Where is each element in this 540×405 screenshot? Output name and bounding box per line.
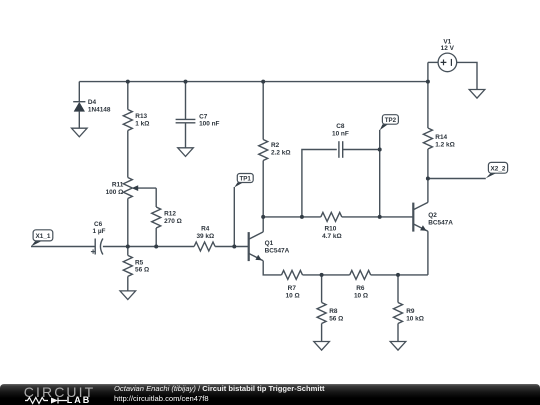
svg-text:10 Ω: 10 Ω <box>286 292 300 299</box>
wire: R5 top lead <box>127 247 129 256</box>
resistor R2 2.2 kΩ <box>259 140 291 161</box>
transistor Q2 BC547A <box>413 202 453 231</box>
svg-text:R7: R7 <box>288 285 297 292</box>
footer credit text <box>114 384 325 393</box>
resistor R5 56 Ω <box>123 255 149 276</box>
svg-text:Q2: Q2 <box>428 212 437 219</box>
svg-text:BC547A: BC547A <box>265 248 290 255</box>
svg-text:10 Ω: 10 Ω <box>354 292 368 299</box>
ground below R5 <box>120 291 136 300</box>
ground right of V1 <box>469 90 485 99</box>
resistor R7 10 Ω <box>282 270 303 299</box>
wire: TP2 leg down to Q2 base node <box>379 130 381 217</box>
wire: R8 bottom lead <box>321 324 323 342</box>
svg-text:2.2 kΩ: 2.2 kΩ <box>271 149 290 156</box>
junction node C8 right/Q2 base <box>378 215 382 219</box>
svg-text:TP1: TP1 <box>240 176 252 183</box>
svg-text:100 Ω: 100 Ω <box>106 189 124 196</box>
wire: R2 top lead <box>262 82 264 140</box>
wire: R2 to collector node <box>262 161 264 217</box>
svg-text:R10: R10 <box>324 226 336 233</box>
capacitor C8 10 nF <box>332 123 349 158</box>
svg-text:1N4148: 1N4148 <box>88 106 111 113</box>
svg-text:R2: R2 <box>271 142 280 149</box>
svg-text:R14: R14 <box>435 134 447 141</box>
svg-text:100 nF: 100 nF <box>199 121 219 128</box>
resistor R6 10 Ω <box>350 270 371 299</box>
svg-text:R12: R12 <box>164 211 176 218</box>
junction node TP1/base <box>232 245 236 249</box>
resistor R9 10 kΩ <box>394 303 424 324</box>
wire: Q1 emitter down to bottom rail <box>263 261 281 275</box>
diode D4 1N4148 <box>73 99 111 128</box>
wire: Q2 emitter down to bottom rail <box>427 231 429 275</box>
resistor R12 270 Ω <box>152 207 182 228</box>
junction node C6/R11/R5/R4 <box>126 245 130 249</box>
svg-text:C6: C6 <box>94 221 103 228</box>
svg-text:TP2: TP2 <box>385 117 397 124</box>
junction node R9/bottom rail <box>396 273 400 277</box>
junction node rail/C7 <box>184 80 188 84</box>
resistor R8 56 Ω <box>317 303 343 324</box>
svg-text:4.7 kΩ: 4.7 kΩ <box>322 233 341 240</box>
wire: R13 top lead <box>127 82 129 110</box>
ground below R9 <box>390 342 406 351</box>
wire: R10 to Q2 base <box>342 216 414 218</box>
terminal X2_2 <box>486 162 508 178</box>
junction node R12/base wire <box>154 245 158 249</box>
svg-text:39 kΩ: 39 kΩ <box>196 233 214 240</box>
svg-text:R11: R11 <box>112 182 124 189</box>
wire: R9 top lead <box>397 275 399 303</box>
junction node C8/TP2 <box>378 148 382 152</box>
test point TP1 <box>234 174 253 188</box>
ground below C7 <box>178 148 194 157</box>
wire: R8 top lead <box>321 275 323 303</box>
junction node output X2 <box>426 177 430 181</box>
wire: R11 wiper to R12 <box>155 188 157 207</box>
wire: Q1 collector up to node <box>262 217 264 232</box>
svg-text:R4: R4 <box>201 226 210 233</box>
svg-text:R13: R13 <box>135 113 147 120</box>
resistor R4 39 kΩ <box>194 226 215 251</box>
wire: R9 bottom lead <box>397 324 399 342</box>
wire: C7 top lead <box>185 82 187 120</box>
svg-text:R6: R6 <box>356 285 365 292</box>
junction node C8 left <box>300 215 304 219</box>
voltage source V1 12 V <box>428 38 477 89</box>
svg-text:1.2 kΩ: 1.2 kΩ <box>435 141 454 148</box>
ground below R8 <box>314 342 330 351</box>
wire: D4 top lead <box>78 82 80 102</box>
ground below D4 <box>72 128 88 137</box>
wire: R4 to Q1 base <box>215 246 249 248</box>
wire: top +12V rail <box>79 81 428 83</box>
svg-text:C7: C7 <box>199 113 208 120</box>
junction node rail/R13 <box>126 80 130 84</box>
svg-text:C8: C8 <box>336 123 345 130</box>
svg-text:R9: R9 <box>406 308 415 315</box>
resistor R10 4.7 kΩ <box>321 212 342 240</box>
wire: TP1 leg down to base node <box>233 187 235 247</box>
wire: R12 bottom lead <box>155 228 157 247</box>
wire: C7 bottom lead <box>185 123 187 148</box>
transistor Q1 BC547A <box>249 232 290 261</box>
test point TP2 <box>380 115 399 131</box>
svg-text:56 Ω: 56 Ω <box>135 267 149 274</box>
svg-text:X2_2: X2_2 <box>491 166 506 173</box>
svg-text:BC547A: BC547A <box>428 219 453 226</box>
capacitor C6 1 µF (polarized) <box>91 221 106 255</box>
capacitor C7 100 nF <box>176 113 220 127</box>
junction node R2/Q1 collector <box>261 215 265 219</box>
resistor R13 1 kΩ <box>123 110 149 131</box>
wire: R14 to Q2 collector <box>427 149 429 202</box>
wire: +12V column down to R14 <box>427 62 429 128</box>
svg-text:56 Ω: 56 Ω <box>329 316 343 323</box>
svg-text:1 µF: 1 µF <box>92 228 105 235</box>
svg-text:R8: R8 <box>329 308 338 315</box>
CircuitLab logo <box>24 384 95 400</box>
junction node rail/R2 <box>261 80 265 84</box>
wire: R13 to R11 <box>127 131 129 178</box>
svg-text:Q1: Q1 <box>265 240 274 247</box>
svg-text:1 kΩ: 1 kΩ <box>135 120 149 127</box>
wire: C8 left leg <box>302 150 337 217</box>
wire: output node to X2_2 <box>428 178 486 180</box>
wire: R7 to R6 <box>303 274 350 276</box>
svg-text:270 Ω: 270 Ω <box>164 218 182 225</box>
footer bar <box>0 384 540 405</box>
wire: R11 bottom lead <box>127 199 129 247</box>
wire: R5 bottom lead <box>127 276 129 291</box>
wire: R6 to Q2 emitter <box>371 274 428 276</box>
wire: collector node to R10 <box>263 216 321 218</box>
terminal X1_1 <box>31 230 53 247</box>
svg-text:10 kΩ: 10 kΩ <box>406 316 424 323</box>
svg-text:10 nF: 10 nF <box>332 130 349 137</box>
junction node R8/bottom rail <box>320 273 324 277</box>
junction node rail/V1 <box>426 80 430 84</box>
wire: C6 to R4 <box>103 246 194 248</box>
resistor R14 1.2 kΩ <box>423 128 454 149</box>
svg-text:12 V: 12 V <box>441 45 455 52</box>
potentiometer R11 100 Ω <box>106 178 157 199</box>
svg-text:D4: D4 <box>88 99 97 106</box>
svg-text:X1_1: X1_1 <box>36 233 51 240</box>
wire: X1_1 to C6 <box>31 246 95 248</box>
svg-text:R5: R5 <box>135 259 144 266</box>
wire: C8 right lead <box>343 149 380 151</box>
